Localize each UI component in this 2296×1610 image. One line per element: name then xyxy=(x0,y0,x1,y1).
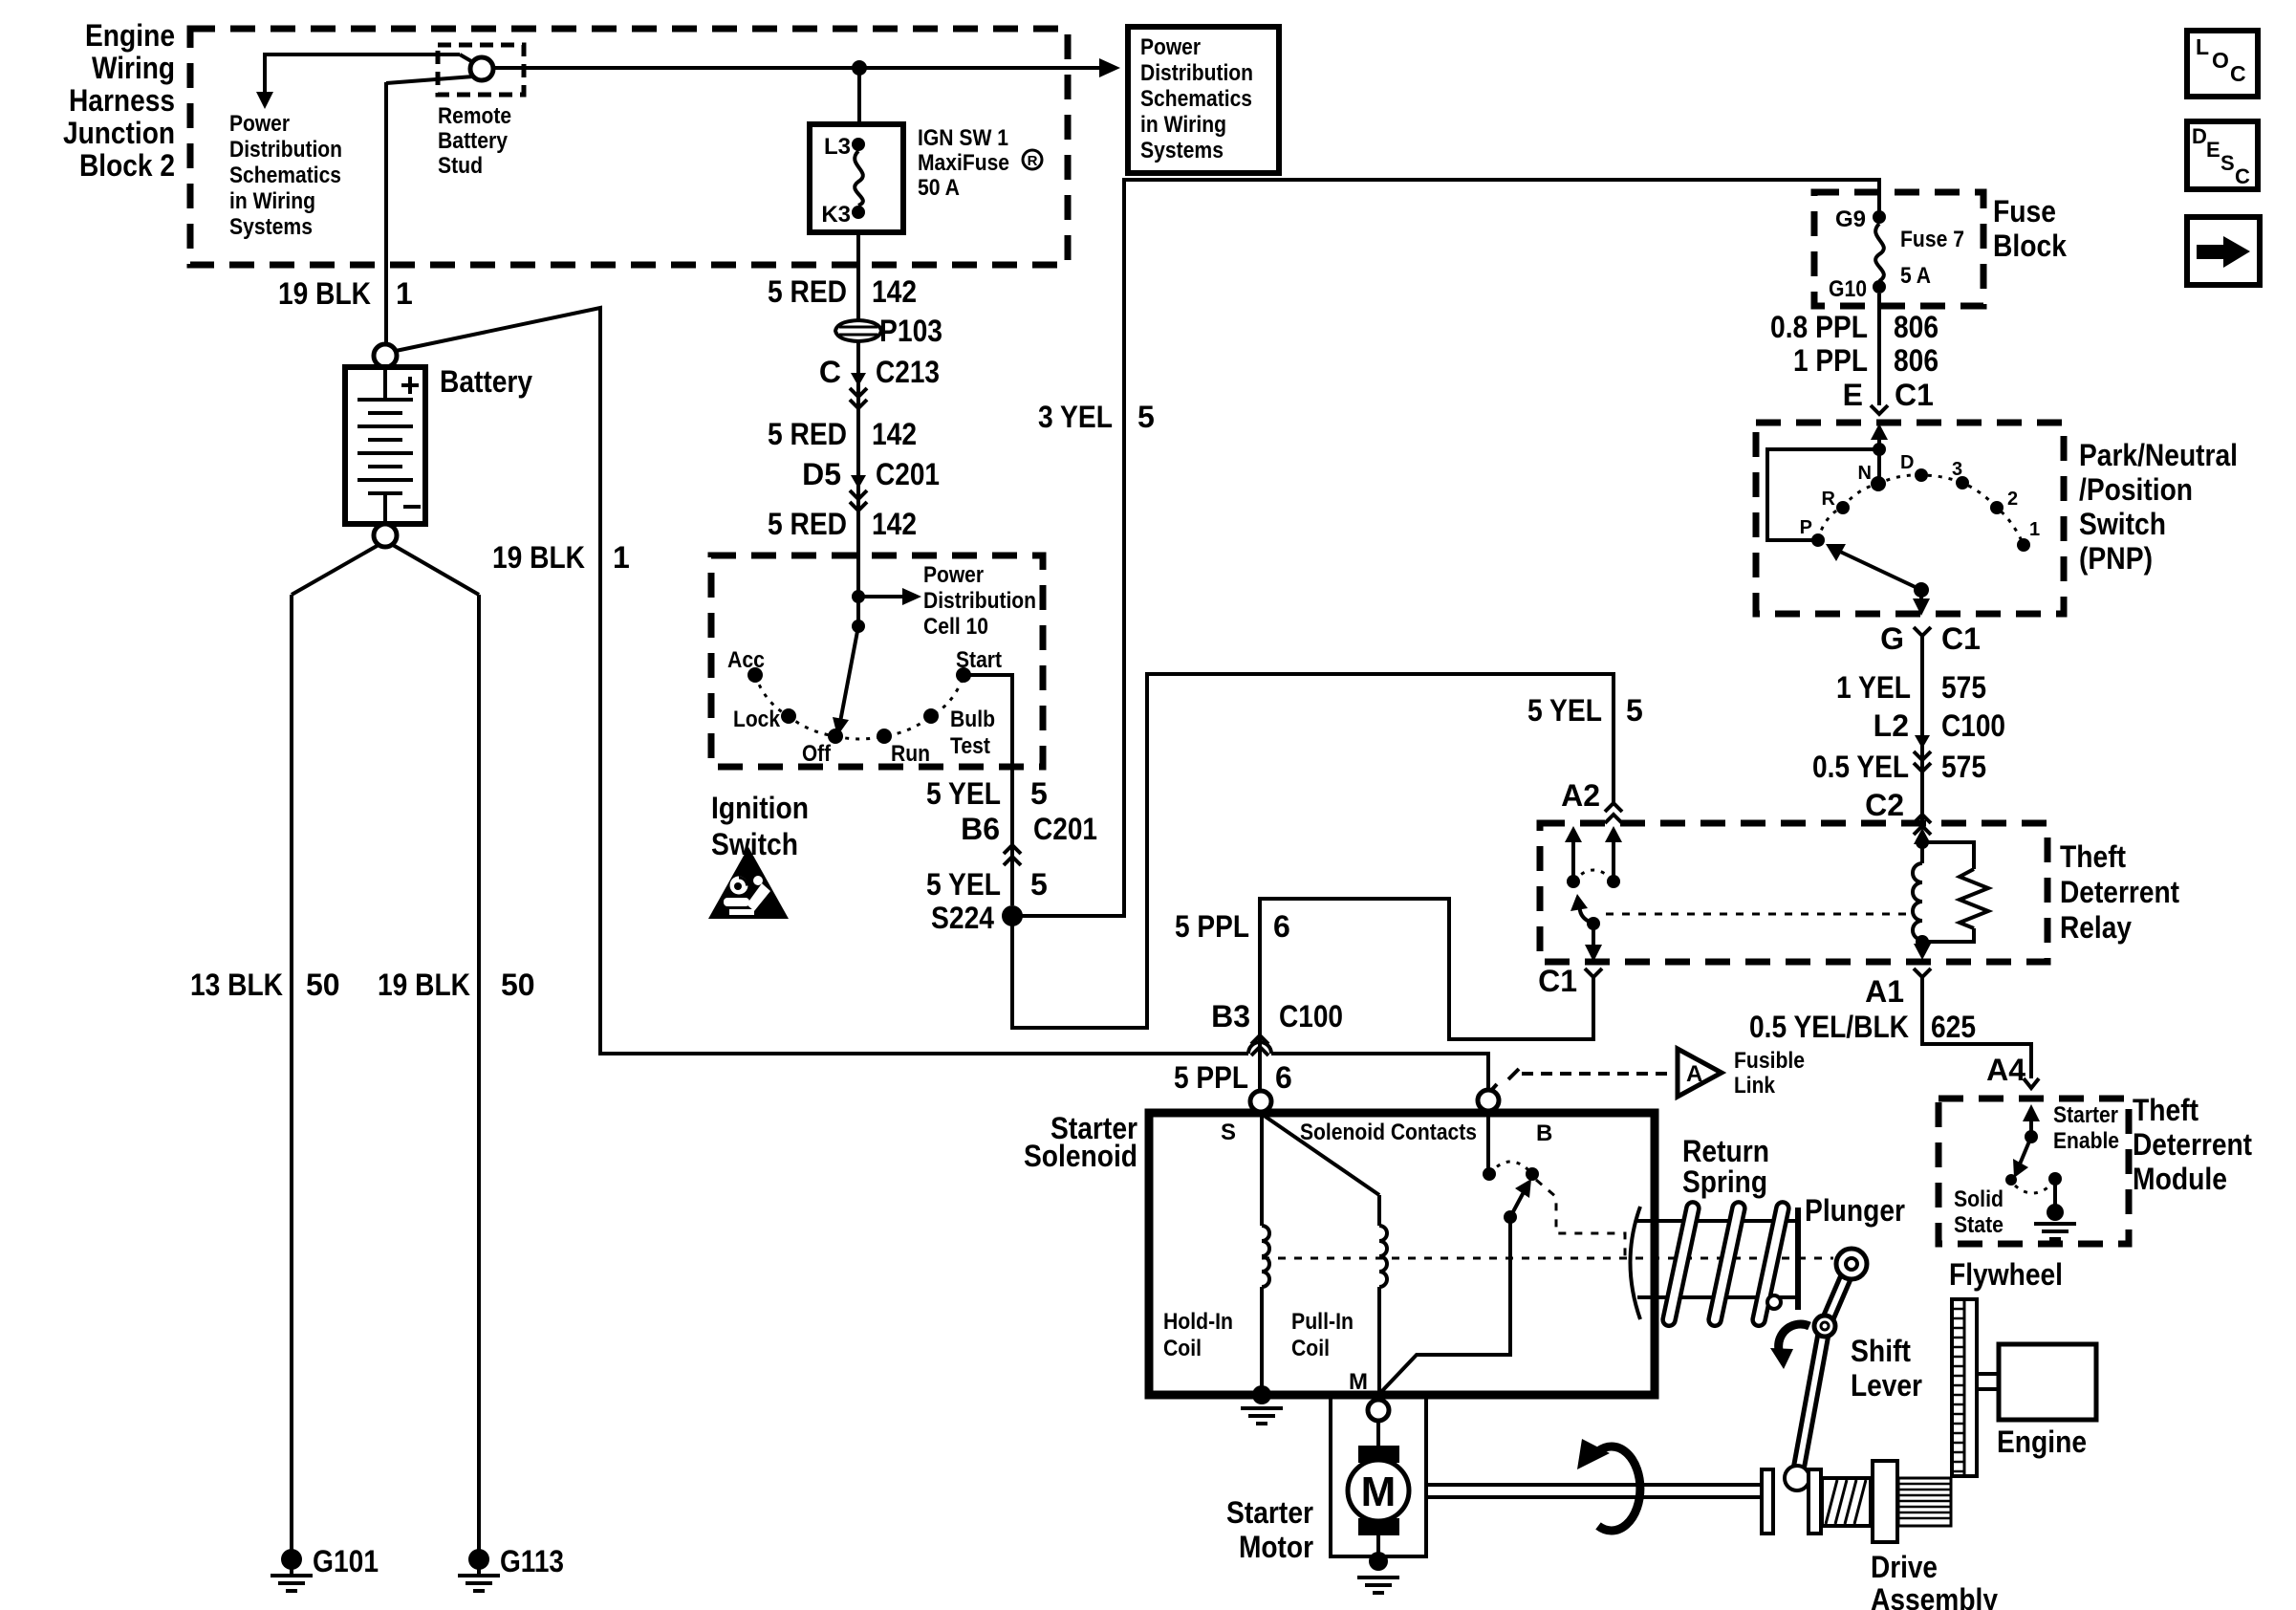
svg-text:5 YEL: 5 YEL xyxy=(926,867,1001,902)
svg-text:R: R xyxy=(1822,489,1836,510)
svg-text:M: M xyxy=(1349,1369,1368,1395)
svg-text:C: C xyxy=(819,355,841,389)
svg-text:5 RED: 5 RED xyxy=(768,274,847,309)
svg-text:State: State xyxy=(1954,1212,2004,1238)
svg-text:B3: B3 xyxy=(1211,999,1250,1033)
svg-text:S224: S224 xyxy=(931,901,994,935)
svg-text:L2: L2 xyxy=(1874,708,1909,743)
svg-text:K3: K3 xyxy=(821,202,851,228)
svg-text:Off: Off xyxy=(802,741,832,767)
svg-text:1: 1 xyxy=(396,276,413,311)
svg-text:Stud: Stud xyxy=(438,153,483,179)
svg-text:C201: C201 xyxy=(876,457,940,491)
svg-text:5 RED: 5 RED xyxy=(768,507,847,541)
svg-text:G: G xyxy=(1880,621,1904,656)
svg-text:D5: D5 xyxy=(802,457,841,491)
svg-text:3: 3 xyxy=(1952,459,1962,480)
svg-text:Junction: Junction xyxy=(63,116,175,150)
svg-text:Schematics: Schematics xyxy=(1140,86,1252,112)
svg-text:Schematics: Schematics xyxy=(229,163,341,188)
svg-text:5: 5 xyxy=(1137,400,1155,434)
svg-text:Module: Module xyxy=(2133,1162,2227,1196)
svg-text:Deterrent: Deterrent xyxy=(2133,1127,2252,1162)
svg-text:142: 142 xyxy=(872,417,917,451)
svg-text:A: A xyxy=(1686,1061,1702,1087)
svg-text:5 A: 5 A xyxy=(1900,263,1931,289)
svg-text:D: D xyxy=(1900,452,1914,473)
svg-text:S: S xyxy=(2220,151,2235,175)
svg-text:Power: Power xyxy=(229,111,290,137)
svg-text:Remote: Remote xyxy=(438,103,511,129)
svg-text:C1: C1 xyxy=(1941,621,1981,656)
svg-text:50 A: 50 A xyxy=(918,175,960,201)
svg-text:Harness: Harness xyxy=(69,83,175,118)
svg-text:MaxiFuse: MaxiFuse xyxy=(918,150,1009,176)
svg-text:M: M xyxy=(1361,1469,1397,1515)
svg-text:625: 625 xyxy=(1931,1010,1976,1044)
svg-text:1 PPL: 1 PPL xyxy=(1793,343,1868,378)
svg-text:Engine: Engine xyxy=(1997,1425,2087,1459)
svg-text:Return: Return xyxy=(1682,1134,1769,1168)
svg-text:C: C xyxy=(2235,164,2250,188)
svg-text:50: 50 xyxy=(306,968,340,1002)
svg-text:Engine: Engine xyxy=(85,18,175,53)
svg-text:Fusible: Fusible xyxy=(1734,1048,1805,1074)
svg-text:19 BLK: 19 BLK xyxy=(378,968,470,1002)
svg-text:Power: Power xyxy=(1140,34,1201,60)
svg-text:Block: Block xyxy=(1993,228,2067,263)
svg-text:Starter: Starter xyxy=(1226,1495,1313,1530)
svg-text:Block 2: Block 2 xyxy=(79,148,175,183)
svg-text:5 YEL: 5 YEL xyxy=(926,776,1001,811)
svg-text:142: 142 xyxy=(872,274,917,309)
svg-text:Spring: Spring xyxy=(1682,1164,1767,1199)
svg-text:3 YEL: 3 YEL xyxy=(1038,400,1113,434)
svg-text:Starter: Starter xyxy=(2053,1102,2118,1128)
svg-text:575: 575 xyxy=(1941,750,1986,784)
svg-text:C2: C2 xyxy=(1865,788,1904,822)
svg-text:B: B xyxy=(1536,1120,1552,1146)
svg-text:in Wiring: in Wiring xyxy=(229,188,315,214)
svg-text:Deterrent: Deterrent xyxy=(2060,875,2179,909)
svg-text:S: S xyxy=(1221,1120,1236,1145)
svg-text:C1: C1 xyxy=(1538,964,1577,998)
svg-text:Shift: Shift xyxy=(1851,1334,1911,1368)
svg-text:Plunger: Plunger xyxy=(1805,1193,1905,1228)
svg-text:E: E xyxy=(2206,138,2220,162)
svg-text:C100: C100 xyxy=(1941,708,2005,743)
svg-text:0.5 YEL: 0.5 YEL xyxy=(1812,750,1909,784)
svg-text:Distribution: Distribution xyxy=(923,588,1036,614)
svg-text:P103: P103 xyxy=(879,314,942,348)
svg-text:C100: C100 xyxy=(1279,999,1343,1033)
svg-text:1 YEL: 1 YEL xyxy=(1836,670,1911,705)
svg-text:0.5 YEL/BLK: 0.5 YEL/BLK xyxy=(1749,1010,1909,1044)
svg-text:Switch: Switch xyxy=(2079,507,2166,541)
svg-text:5: 5 xyxy=(1626,693,1643,728)
svg-text:Bulb: Bulb xyxy=(950,707,995,732)
svg-text:1: 1 xyxy=(2029,519,2040,540)
svg-text:IGN SW 1: IGN SW 1 xyxy=(918,125,1008,151)
svg-text:Fuse 7: Fuse 7 xyxy=(1900,227,1964,252)
svg-text:50: 50 xyxy=(501,968,535,1002)
svg-text:Hold-In: Hold-In xyxy=(1163,1309,1233,1335)
svg-text:Coil: Coil xyxy=(1163,1336,1202,1361)
svg-text:E: E xyxy=(1843,378,1863,412)
svg-text:0.8 PPL: 0.8 PPL xyxy=(1770,310,1868,344)
svg-text:5: 5 xyxy=(1030,867,1048,902)
svg-text:Distribution: Distribution xyxy=(1140,60,1253,86)
svg-text:G9: G9 xyxy=(1835,207,1866,232)
svg-text:575: 575 xyxy=(1941,670,1986,705)
svg-text:C1: C1 xyxy=(1895,378,1934,412)
svg-text:806: 806 xyxy=(1894,343,1939,378)
svg-text:Solid: Solid xyxy=(1954,1186,2004,1212)
svg-text:Battery: Battery xyxy=(438,128,509,154)
svg-text:Solenoid Contacts: Solenoid Contacts xyxy=(1300,1120,1477,1145)
svg-text:5: 5 xyxy=(1030,776,1048,811)
svg-text:Motor: Motor xyxy=(1239,1530,1313,1564)
svg-text:Battery: Battery xyxy=(440,364,532,399)
svg-text:C: C xyxy=(2230,61,2246,86)
svg-text:Wiring: Wiring xyxy=(92,51,175,85)
svg-text:R: R xyxy=(1028,153,1038,169)
svg-text:Coil: Coil xyxy=(1291,1336,1330,1361)
svg-text:G101: G101 xyxy=(313,1544,379,1578)
svg-text:Distribution: Distribution xyxy=(229,137,342,163)
svg-text:B6: B6 xyxy=(961,812,1000,846)
svg-text:N: N xyxy=(1858,463,1872,484)
svg-text:Assembly: Assembly xyxy=(1871,1582,1998,1610)
svg-text:O: O xyxy=(2212,48,2229,73)
svg-text:/Position: /Position xyxy=(2079,472,2193,507)
svg-text:in Wiring: in Wiring xyxy=(1140,112,1226,138)
svg-text:D: D xyxy=(2192,124,2207,148)
svg-text:Theft: Theft xyxy=(2060,839,2126,874)
svg-text:13 BLK: 13 BLK xyxy=(190,968,283,1002)
svg-text:806: 806 xyxy=(1894,310,1939,344)
svg-text:L3: L3 xyxy=(824,134,851,160)
svg-text:G10: G10 xyxy=(1829,276,1867,302)
svg-text:Power: Power xyxy=(923,562,984,588)
svg-text:5 RED: 5 RED xyxy=(768,417,847,451)
svg-text:Ignition: Ignition xyxy=(711,791,809,825)
svg-text:6: 6 xyxy=(1275,1060,1292,1095)
svg-text:142: 142 xyxy=(872,507,917,541)
svg-text:C213: C213 xyxy=(876,355,940,389)
svg-text:5 PPL: 5 PPL xyxy=(1175,909,1249,944)
svg-text:1: 1 xyxy=(613,540,630,575)
svg-text:A1: A1 xyxy=(1865,974,1904,1009)
svg-text:Solenoid: Solenoid xyxy=(1024,1139,1137,1173)
svg-text:P: P xyxy=(1800,517,1812,538)
svg-text:Systems: Systems xyxy=(1140,138,1224,163)
svg-text:(PNP): (PNP) xyxy=(2079,541,2153,576)
svg-text:Theft: Theft xyxy=(2133,1093,2199,1127)
svg-text:Pull-In: Pull-In xyxy=(1291,1309,1354,1335)
svg-text:G113: G113 xyxy=(500,1544,564,1578)
svg-text:Park/Neutral: Park/Neutral xyxy=(2079,438,2238,472)
svg-text:A2: A2 xyxy=(1561,778,1600,813)
svg-text:Enable: Enable xyxy=(2053,1128,2119,1154)
svg-text:19 BLK: 19 BLK xyxy=(278,276,371,311)
svg-text:6: 6 xyxy=(1273,909,1290,944)
svg-text:Cell 10: Cell 10 xyxy=(923,614,988,640)
svg-text:C201: C201 xyxy=(1033,812,1097,846)
svg-text:Systems: Systems xyxy=(229,214,313,240)
svg-text:Start: Start xyxy=(956,647,1002,673)
svg-text:Lock: Lock xyxy=(733,707,781,732)
svg-text:Relay: Relay xyxy=(2060,910,2132,945)
svg-text:2: 2 xyxy=(2007,489,2018,510)
svg-text:Link: Link xyxy=(1734,1073,1776,1099)
svg-text:Lever: Lever xyxy=(1851,1368,1922,1403)
svg-text:Acc: Acc xyxy=(727,647,765,673)
svg-text:5 YEL: 5 YEL xyxy=(1527,693,1602,728)
svg-text:Test: Test xyxy=(950,733,990,759)
svg-text:5 PPL: 5 PPL xyxy=(1174,1060,1248,1095)
svg-text:19 BLK: 19 BLK xyxy=(492,540,585,575)
svg-text:Drive: Drive xyxy=(1871,1550,1938,1584)
svg-text:A4: A4 xyxy=(1986,1053,2025,1087)
svg-text:L: L xyxy=(2196,34,2209,59)
svg-text:Switch: Switch xyxy=(711,827,798,861)
svg-text:Run: Run xyxy=(891,741,930,767)
svg-text:Flywheel: Flywheel xyxy=(1949,1257,2063,1292)
svg-text:Fuse: Fuse xyxy=(1993,194,2056,228)
